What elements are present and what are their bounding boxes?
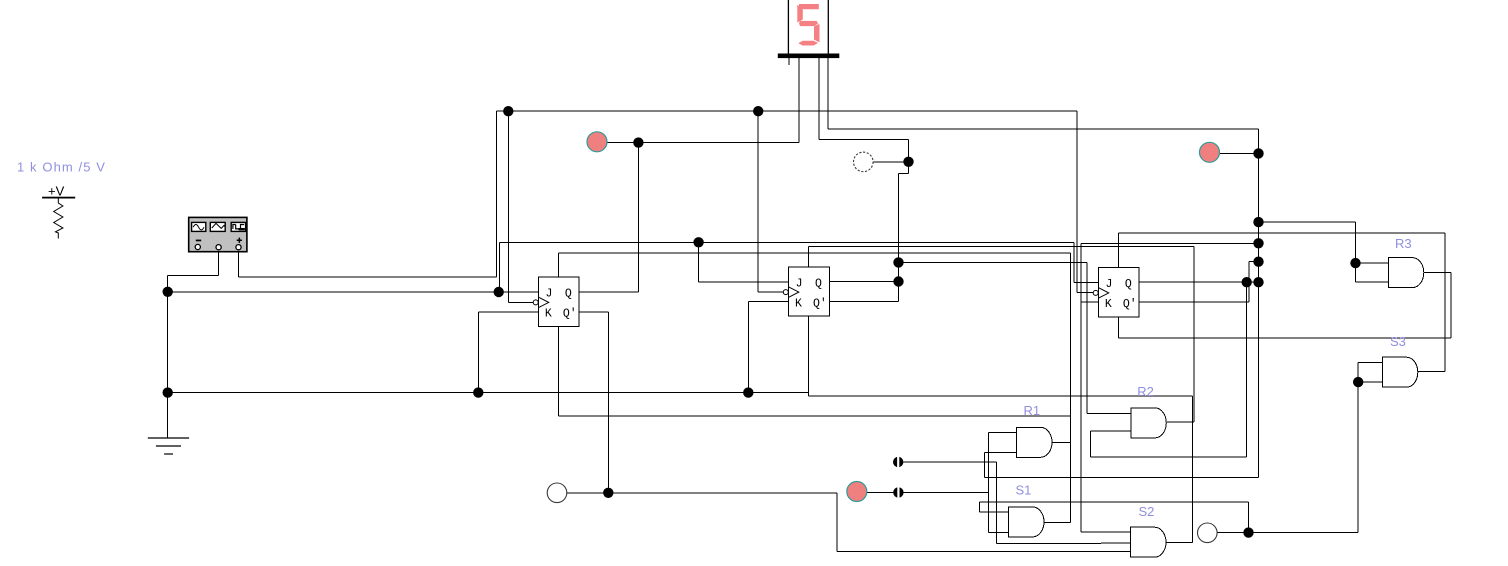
junction clock FF1 [503, 106, 513, 116]
wire FF2 K input [748, 301, 788, 303]
wire FF1 K drop [477, 312, 479, 392]
ground symbol [148, 438, 189, 454]
junction FF1 K ground [473, 387, 483, 397]
display pin3 lead [818, 58, 820, 139]
junction W2 node [603, 488, 613, 498]
rail S-set net [980, 501, 1249, 503]
JK flip-flop U3 [1093, 268, 1139, 317]
rail R2 lower net [1090, 456, 1246, 458]
junction probe1 node [633, 137, 643, 147]
wire lamp W2 stub [567, 492, 608, 494]
junction R3 inputs [1350, 258, 1360, 268]
wire FF1 bottom pin [557, 326, 559, 416]
wire R2 output [1167, 421, 1194, 423]
probe W3 (off) [1198, 523, 1218, 543]
wire net to R3 [1259, 221, 1356, 223]
J distribution rail [500, 241, 1075, 243]
probe X1 (lit) [587, 132, 607, 152]
probe W1 (off) [854, 152, 874, 172]
junction right bus Q3 [1253, 277, 1263, 287]
long vertical J stub to S2 [1080, 243, 1082, 532]
AND gate S3 [1382, 357, 1417, 387]
wire FF3 K input [1081, 301, 1098, 303]
junction Q2 rail [893, 257, 903, 267]
wire R1 lower input [985, 452, 1017, 454]
AND gate R1 [1017, 427, 1052, 457]
wire R3 out drop [1450, 272, 1452, 337]
wire S3 output [1418, 371, 1445, 373]
wire R3 output [1424, 271, 1451, 273]
wire R2 lower input [1090, 430, 1131, 432]
rail FF2 bottom pin [809, 395, 1193, 397]
junction node1 striped [893, 457, 903, 468]
left bus to ground [167, 275, 169, 437]
wire R1 lower drop [984, 453, 986, 478]
wire FF2 clock input [758, 291, 783, 293]
wire FF2 J input [699, 281, 789, 283]
wire FF2 top pin [808, 246, 810, 267]
wire FF1 Q-bar output [579, 311, 608, 313]
wire FF2 J drop [698, 242, 700, 282]
wire S2 out riser [1191, 396, 1193, 543]
display pin4 lead [827, 58, 829, 129]
wire FF2 bottom pin [808, 316, 810, 396]
rail FF3 top pin [1119, 232, 1446, 234]
svg-text:S3: S3 [1390, 334, 1406, 349]
wire S1 R1 bus [1069, 253, 1071, 523]
wire gen plus terminal run [239, 276, 497, 278]
wire FF3 Q drop [1246, 282, 1248, 457]
rail Q2 net [899, 261, 1088, 263]
svg-text:Q': Q' [563, 308, 577, 321]
junction left bus ground rail [163, 387, 173, 397]
wire FF1 top pin [557, 253, 559, 277]
wire FF3 clock input [1077, 292, 1093, 294]
probe W2 (off) [547, 483, 567, 503]
wire node1 drop [996, 462, 998, 544]
junction right bus Qbar3 [1253, 257, 1263, 267]
probe X2 (lit) [1200, 142, 1220, 162]
junction J rail FF1 [494, 287, 504, 297]
junction FF2 Q [893, 276, 903, 286]
svg-text:Q: Q [815, 277, 822, 290]
wire FF3 Qbar riser [1248, 262, 1250, 303]
AND gate R2 [1131, 408, 1166, 438]
wire FF1 K input [478, 311, 538, 313]
svg-text:1 k Ohm /5 V: 1 k Ohm /5 V [17, 160, 106, 175]
wire S3 upper input [1358, 361, 1382, 363]
wire node1 run [904, 461, 997, 463]
J input rail [168, 291, 539, 293]
wire S1 upper jog [979, 502, 981, 512]
wire FF3 Q-bar output [1139, 301, 1249, 303]
probe X3 (lit) [847, 482, 867, 502]
wire FF2 clock drop [757, 111, 759, 292]
svg-text:Q: Q [1125, 278, 1132, 291]
junction FF2 K ground [743, 387, 753, 397]
function generator XFG1 [189, 217, 247, 251]
JK flip-flop U2 [783, 267, 829, 316]
wire FF3 J drop [1073, 242, 1075, 282]
wire S3 input drop [1357, 362, 1359, 532]
wire S3 lower input [1358, 381, 1382, 383]
junction W1 node [903, 157, 913, 167]
svg-text:J: J [796, 277, 803, 290]
wire FF2 Q output [829, 281, 898, 283]
wire gen minus terminal run [168, 274, 219, 276]
wire Q2 net drop [898, 174, 900, 302]
wire R2 lower riser [1089, 431, 1091, 457]
wire W1 node drop [908, 139, 910, 173]
wire probe2 stub [1220, 152, 1259, 154]
rail FF3 bottom pin [1119, 337, 1451, 339]
svg-text:R3: R3 [1395, 236, 1412, 251]
wire Qbar1 net drop [836, 493, 838, 552]
ground rail [168, 392, 809, 394]
junction W3 node [1243, 527, 1253, 537]
junction right bus R3 net [1253, 217, 1263, 227]
AND gate R3 [1388, 258, 1423, 288]
wire J riser FF1 [499, 242, 501, 292]
junction FF3 Q left [1242, 277, 1252, 287]
svg-text:R1: R1 [1024, 403, 1041, 418]
wire S2 third input run [837, 551, 1131, 553]
rail FF1 top pin [558, 252, 1070, 254]
wire S2 mid input [1101, 542, 1130, 544]
display pin1 lead [788, 58, 790, 65]
wire FF3 top pin [1118, 233, 1120, 268]
right bus vertical [1258, 129, 1260, 477]
wire FF1 clock input [508, 301, 533, 303]
wire FF1 Q riser [637, 143, 639, 293]
wire R1 upper drop [988, 433, 990, 533]
svg-text:J: J [546, 288, 553, 301]
wire lamp W1 stub [873, 161, 909, 163]
junction left bus J rail [163, 287, 173, 297]
svg-text:R2: R2 [1137, 384, 1154, 399]
svg-text:+V: +V [48, 184, 65, 199]
wire FF1 Qbar drop [607, 312, 609, 493]
junction S3 inputs [1353, 377, 1363, 387]
wire node to S3 riser [1249, 532, 1359, 534]
wire R1 upper input [989, 432, 1017, 434]
seven-segment display U4 [778, 0, 840, 58]
rail FF2 top pin [809, 245, 1194, 247]
wire FF3 bottom pin [1118, 317, 1120, 338]
wire node to display pin2 [638, 142, 799, 144]
rail FF1 bottom pin [558, 415, 1070, 417]
wire FF1 clock drop [507, 111, 509, 302]
svg-text:K: K [795, 297, 802, 310]
wire S1 output [1044, 522, 1071, 524]
wire FF2 Q-bar output [829, 301, 898, 303]
wire S3 out riser [1444, 233, 1446, 372]
junction right bus J stub [1253, 238, 1263, 248]
gen minus lead [218, 252, 220, 275]
riser gen plus to clock rail [496, 111, 498, 277]
svg-text:J: J [1106, 278, 1113, 291]
display pin2 lead [798, 58, 800, 143]
wire S2 output [1166, 542, 1193, 544]
svg-text:Q: Q [565, 288, 572, 301]
wire R1 output [1051, 441, 1070, 443]
svg-text:Q': Q' [1123, 298, 1137, 311]
wire FF1 Q output [579, 291, 638, 293]
wire FF3 Q output [1139, 281, 1259, 283]
wire R3 input riser [1355, 222, 1357, 282]
wire R2 upper input [1087, 412, 1131, 414]
svg-text:K: K [1105, 298, 1112, 311]
wire R3 lower input [1356, 281, 1389, 283]
junction J rail FF2 [693, 237, 703, 247]
junction probe3 node striped [893, 487, 903, 498]
clock rail from function generator [497, 110, 1077, 112]
wire probe1 to node [607, 142, 638, 144]
JK flip-flop U1 [533, 277, 579, 326]
AND gate S1 [1009, 507, 1044, 537]
wire probe3 stub [867, 492, 899, 494]
gen plus lead [238, 252, 240, 277]
junction clock FF2 [753, 106, 763, 116]
wire node to R1 riser [904, 492, 989, 494]
seven-segment digit 5 [797, 4, 819, 46]
junction right bus probe2 [1253, 148, 1263, 158]
wire FF2 K drop [747, 302, 749, 393]
wire S2 upper input [1081, 531, 1131, 533]
rail J stub net [1081, 242, 1259, 244]
wire display pin4 run [828, 128, 1259, 130]
wire FF3 J input [1074, 281, 1098, 283]
AND gate S2 [1131, 527, 1166, 557]
wire S1 upper input [980, 511, 1009, 513]
wire R2 upper drop [1086, 262, 1088, 413]
wire Q-bar riser top [1249, 261, 1258, 263]
wire S1 lower input [989, 531, 1009, 533]
resistor R 1k zigzag [54, 199, 63, 239]
wire FF3 clock drop [1076, 111, 1078, 292]
svg-text:S2: S2 [1139, 504, 1155, 519]
rail Q-bar1 net [608, 492, 837, 494]
wire S2 mid input run [997, 542, 1102, 544]
wire jog [899, 173, 909, 175]
svg-text:K: K [545, 308, 552, 321]
wire R2 out riser [1193, 246, 1195, 422]
wire lamp W3 stub [1218, 532, 1249, 534]
wire display pin3 run [819, 138, 909, 140]
svg-text:S1: S1 [1016, 483, 1032, 498]
supply rail bar [42, 197, 75, 199]
wire R3 upper input [1356, 262, 1389, 264]
svg-text:Q': Q' [813, 297, 827, 310]
rail R1 lower net [985, 476, 1259, 478]
wire W3 node riser [1248, 502, 1250, 533]
